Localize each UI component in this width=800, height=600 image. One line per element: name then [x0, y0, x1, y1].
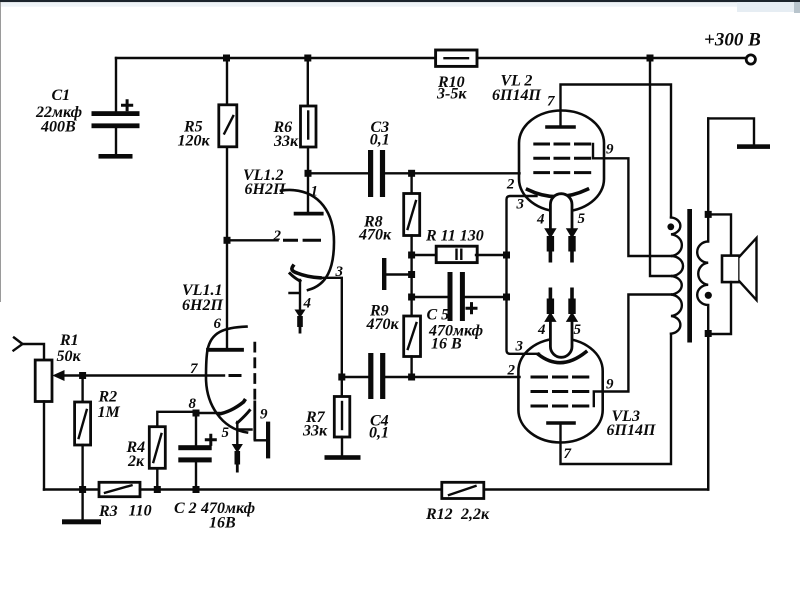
- svg-text:C 2: C 2: [174, 500, 197, 517]
- svg-text:R2: R2: [98, 389, 118, 406]
- svg-text:C1: C1: [52, 87, 71, 104]
- VL2 grid dashes: [533, 144, 591, 173]
- svg-text:1М: 1М: [98, 404, 121, 421]
- svg-text:33к: 33к: [273, 133, 299, 150]
- triode VL1.1 envelope: [206, 327, 247, 433]
- resistor R8: [404, 173, 420, 316]
- capacitor C2: [178, 412, 215, 490]
- VL2 heater arrow pin 4: [544, 228, 556, 262]
- svg-text:6: 6: [214, 316, 222, 332]
- pentode VL2 envelope: [519, 111, 604, 212]
- wire: +300V top rail right of R10: [477, 57, 746, 59]
- svg-text:6Н2П: 6Н2П: [182, 297, 223, 314]
- junction at speaker top: [705, 211, 712, 218]
- svg-text:6П14П: 6П14П: [607, 422, 656, 439]
- VL3 heater arrow pin 5: [566, 288, 578, 322]
- ground at secondary top: [708, 118, 770, 149]
- svg-text:R3: R3: [98, 503, 118, 520]
- svg-text:2: 2: [273, 228, 282, 244]
- ground under R7: [325, 455, 361, 460]
- resistor R5: [219, 58, 237, 350]
- svg-text:8: 8: [189, 396, 197, 412]
- junction at C5 right: [503, 294, 510, 301]
- svg-text:R12: R12: [425, 506, 453, 523]
- svg-text:C 5: C 5: [427, 307, 450, 324]
- resistor R2: [75, 376, 91, 490]
- svg-text:5: 5: [574, 322, 582, 338]
- top window border artifact: [0, 0, 800, 2]
- svg-text:16В: 16В: [209, 515, 236, 532]
- svg-text:3-5к: 3-5к: [436, 86, 467, 103]
- transformer T1 core: [687, 209, 692, 343]
- svg-text:R 11 130: R 11 130: [425, 228, 484, 245]
- junction at R7 top: [338, 374, 345, 381]
- svg-text:33к: 33к: [302, 423, 328, 440]
- wire: +300V top rail left of R10: [116, 57, 436, 59]
- svg-text:7: 7: [547, 94, 555, 110]
- svg-text:0,1: 0,1: [369, 425, 389, 442]
- svg-text:7: 7: [564, 446, 572, 462]
- R1 wiper arrow to VL1.1 grid: [52, 370, 224, 381]
- transformer secondary winding: [697, 118, 708, 489]
- VL1.1 heater with arrow pin 5: [232, 411, 252, 473]
- wire: speaker bottom to junction: [708, 282, 731, 334]
- svg-text:0,1: 0,1: [370, 132, 390, 149]
- svg-text:1: 1: [311, 184, 319, 200]
- svg-text:3: 3: [516, 197, 525, 213]
- svg-text:400В: 400В: [40, 119, 76, 136]
- svg-text:50к: 50к: [57, 348, 82, 365]
- capacitor C4: [368, 353, 385, 399]
- svg-text:16 В: 16 В: [431, 336, 462, 353]
- VL3 cathode: [539, 352, 586, 363]
- svg-text:6Н2П: 6Н2П: [245, 181, 286, 198]
- svg-text:4: 4: [303, 296, 312, 312]
- VL1.1 pin 9 bracket: [255, 422, 270, 459]
- capacitor C3: [368, 150, 385, 197]
- VL3 screen pin 9 lead: [594, 295, 671, 407]
- junction at VL1.1 cathode / R4 / C2: [193, 410, 200, 417]
- VL3 heater arrow pin 4: [544, 288, 556, 322]
- wire: C4 row left: [342, 376, 368, 378]
- VL3 grid dashes: [531, 377, 590, 406]
- junction at R6 bottom: [305, 170, 312, 177]
- triode VL1.2 envelope: [281, 190, 334, 290]
- junction at C2 bottom: [193, 486, 200, 493]
- svg-text:120к: 120к: [178, 133, 211, 150]
- junction at VL1.2 grid: [224, 237, 231, 244]
- VL1.1 grid dash: [229, 374, 242, 377]
- VL2 screen pin 9 lead: [593, 144, 671, 256]
- bar electrode node at R8/R9 chain: [382, 258, 412, 290]
- svg-text:R1: R1: [59, 332, 79, 349]
- svg-text:9: 9: [606, 377, 614, 393]
- svg-text:9: 9: [606, 142, 614, 158]
- VL1.1 anode: [208, 348, 242, 352]
- VL2 heater arrow pin 5: [566, 228, 578, 262]
- junction at speaker bottom / feedback: [705, 330, 712, 337]
- svg-text:110: 110: [129, 503, 152, 520]
- potentiometer R1: [23, 344, 53, 490]
- +300V terminal: [746, 55, 755, 64]
- resistor R10: [436, 50, 477, 66]
- junction at R8 bottom / R11 left: [408, 252, 415, 259]
- transformer primary winding: [671, 217, 683, 333]
- svg-text:+300 В: +300 В: [704, 30, 761, 51]
- VL1.2 anode: [296, 212, 322, 216]
- ground under C1: [99, 154, 133, 159]
- resistor R9: [404, 316, 421, 377]
- svg-text:2к: 2к: [127, 453, 145, 470]
- svg-text:470к: 470к: [358, 227, 392, 244]
- VL2 cathode: [528, 189, 588, 196]
- svg-text:7: 7: [190, 361, 198, 377]
- VL1.2 grid wire and dashes: [227, 239, 321, 241]
- junction at R11 right: [503, 252, 510, 259]
- wire: VL1.2 anode node down to C4 row: [320, 278, 342, 377]
- speaker BA1: [722, 238, 757, 300]
- svg-text:470к: 470к: [366, 316, 400, 333]
- wire: C3 to VL2 grid: [385, 172, 520, 174]
- junction at C5 left: [408, 294, 415, 301]
- svg-text:2: 2: [507, 363, 516, 379]
- secondary phase dot: [705, 292, 712, 299]
- svg-text:2: 2: [506, 177, 515, 193]
- svg-text:4: 4: [537, 322, 546, 338]
- svg-text:3: 3: [515, 339, 524, 355]
- VL1.1 shield pin 9 dashed: [253, 342, 256, 400]
- junction at R1 wiper / R2 top: [79, 372, 86, 379]
- wire: R6 node to C3: [308, 172, 368, 174]
- svg-text:4: 4: [536, 212, 545, 228]
- VL1.1 cathode: [196, 401, 245, 415]
- wire: bottom rail right and riser to speaker node: [484, 334, 708, 490]
- VL2 pin 3 lead: [507, 196, 537, 297]
- wire: +300V feed to transformer centre tap: [650, 58, 671, 276]
- svg-text:9: 9: [260, 407, 268, 423]
- VL3 anode and pin 7 lead to transformer: [548, 334, 671, 464]
- resistor R11: [412, 246, 507, 262]
- capacitor C5: [412, 272, 507, 321]
- junction at R9 bottom / C4 out: [408, 374, 415, 381]
- svg-text:3: 3: [335, 264, 344, 280]
- junction at R5 top: [223, 55, 230, 62]
- junction at bar electrode: [408, 271, 415, 278]
- junction at R4 bottom: [154, 486, 161, 493]
- capacitor C1: [92, 58, 140, 154]
- wire: C4 to VL3 grid: [385, 376, 519, 378]
- svg-text:5: 5: [578, 211, 586, 227]
- svg-text:2,2к: 2,2к: [460, 506, 490, 523]
- VL2 anode and pin 7 lead to transformer: [547, 85, 671, 218]
- VL1.2 heater with arrow pin 4: [290, 274, 306, 334]
- pentode VL3 envelope: [518, 339, 602, 443]
- wire: secondary to speaker top: [708, 214, 731, 255]
- primary phase dot: [667, 223, 674, 230]
- junction at R6 top: [304, 55, 311, 62]
- svg-text:5: 5: [222, 425, 230, 441]
- VL2 heater: [550, 194, 572, 229]
- wire: bottom rail left: [44, 488, 99, 490]
- resistor R3: [99, 482, 140, 496]
- VL1.2 cathode: [292, 266, 320, 278]
- VL3 heater: [550, 321, 572, 357]
- VL3 pin 3 lead: [507, 297, 540, 354]
- input terminal chevron: [14, 338, 23, 351]
- resistor R12: [442, 482, 484, 498]
- svg-text:6П14П: 6П14П: [492, 87, 541, 104]
- resistor R7: [334, 377, 350, 455]
- wire: bottom rail middle: [140, 488, 442, 490]
- junction at C3 out: [408, 170, 415, 177]
- resistor R4: [149, 412, 196, 490]
- junction at +300V feed: [647, 55, 654, 62]
- ground under R2: [62, 490, 101, 525]
- junction at R2 bottom ground: [79, 486, 86, 493]
- resistor R6: [301, 58, 317, 214]
